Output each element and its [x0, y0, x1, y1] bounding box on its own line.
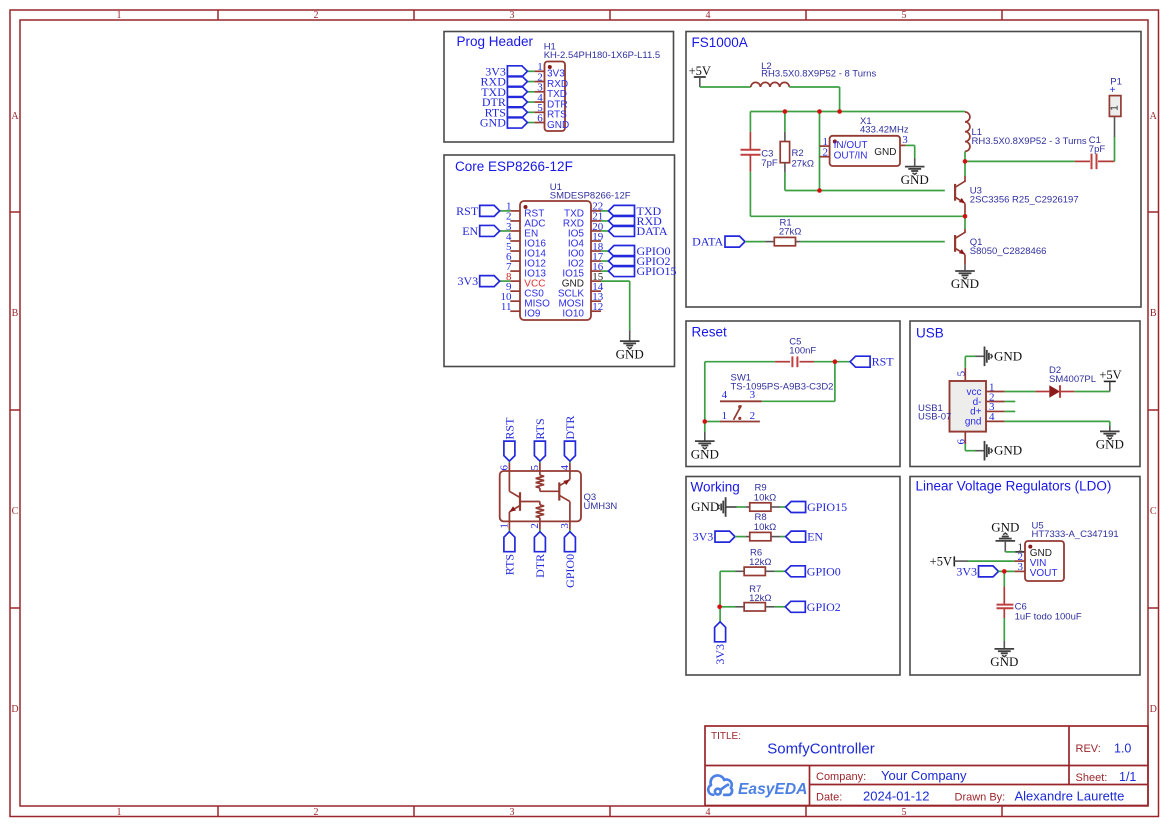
- svg-text:EN: EN: [807, 530, 823, 544]
- svg-text:TITLE:: TITLE:: [711, 731, 741, 742]
- svg-text:A: A: [1150, 111, 1158, 122]
- svg-text:1/1: 1/1: [1119, 770, 1136, 784]
- svg-text:C: C: [1150, 506, 1157, 517]
- svg-text:EN: EN: [462, 224, 478, 238]
- svg-text:VOUT: VOUT: [1030, 568, 1058, 579]
- svg-text:GPIO0: GPIO0: [807, 564, 841, 578]
- svg-text:RH3.5X0.8X9P52 - 3 Turns: RH3.5X0.8X9P52 - 3 Turns: [972, 136, 1087, 147]
- svg-text:GPIO2: GPIO2: [807, 600, 841, 614]
- svg-text:Alexandre Laurette: Alexandre Laurette: [1015, 789, 1125, 804]
- svg-text:SomfyController: SomfyController: [767, 741, 875, 758]
- svg-text:1: 1: [117, 10, 122, 21]
- svg-text:5: 5: [902, 10, 907, 21]
- svg-text:Prog Header: Prog Header: [457, 34, 534, 49]
- svg-text:A: A: [11, 111, 19, 122]
- svg-text:TS-1095PS-A9B3-C3D2: TS-1095PS-A9B3-C3D2: [731, 381, 834, 392]
- svg-text:6: 6: [955, 439, 967, 445]
- svg-text:FS1000A: FS1000A: [692, 35, 748, 50]
- svg-text:GND: GND: [991, 519, 1019, 534]
- svg-text:SM4007PL: SM4007PL: [1049, 374, 1096, 385]
- svg-text:5: 5: [902, 807, 907, 818]
- svg-text:4: 4: [706, 10, 711, 21]
- svg-text:1: 1: [499, 523, 511, 529]
- svg-text:12: 12: [592, 301, 603, 313]
- svg-text:27kΩ: 27kΩ: [792, 158, 814, 169]
- svg-text:3V3: 3V3: [458, 274, 479, 288]
- svg-text:11: 11: [501, 301, 512, 313]
- svg-text:3: 3: [559, 523, 571, 529]
- svg-text:3V3: 3V3: [693, 530, 714, 544]
- svg-text:D: D: [11, 704, 18, 715]
- svg-text:Linear Voltage Regulators (LDO: Linear Voltage Regulators (LDO): [916, 479, 1112, 494]
- svg-text:EasyEDA: EasyEDA: [738, 781, 807, 798]
- svg-text:4: 4: [989, 411, 995, 423]
- svg-text:100nF: 100nF: [789, 346, 816, 357]
- svg-text:2024-01-12: 2024-01-12: [863, 789, 930, 804]
- svg-text:SMDESP8266-12F: SMDESP8266-12F: [550, 190, 631, 201]
- svg-text:3: 3: [902, 134, 908, 146]
- svg-text:4: 4: [706, 807, 711, 818]
- svg-text:Reset: Reset: [692, 325, 728, 340]
- svg-text:GND: GND: [616, 346, 644, 361]
- svg-text:GND: GND: [547, 120, 569, 131]
- svg-text:C: C: [12, 506, 19, 517]
- svg-text:2: 2: [314, 10, 319, 21]
- svg-text:B: B: [12, 308, 19, 319]
- svg-text:10kΩ: 10kΩ: [754, 522, 776, 533]
- svg-text:4: 4: [559, 465, 571, 471]
- svg-text:Working: Working: [691, 480, 740, 495]
- svg-text:GND: GND: [951, 276, 979, 291]
- svg-text:10kΩ: 10kΩ: [754, 492, 776, 503]
- svg-text:B: B: [1150, 308, 1157, 319]
- svg-text:12kΩ: 12kΩ: [749, 557, 771, 568]
- svg-text:RH3.5X0.8X9P52 - 8 Turns: RH3.5X0.8X9P52 - 8 Turns: [761, 68, 876, 79]
- svg-text:1: 1: [1110, 105, 1121, 111]
- svg-text:2: 2: [314, 807, 319, 818]
- svg-text:RST: RST: [872, 355, 895, 369]
- svg-text:3V3: 3V3: [956, 565, 977, 579]
- svg-text:1: 1: [117, 807, 122, 818]
- svg-text:GPIO15: GPIO15: [807, 500, 847, 514]
- svg-text:OUT/IN: OUT/IN: [834, 151, 868, 162]
- svg-text:gnd: gnd: [965, 417, 982, 428]
- svg-text:5: 5: [529, 465, 541, 471]
- svg-text:DATA: DATA: [692, 235, 723, 249]
- svg-text:GND: GND: [1096, 437, 1124, 452]
- svg-text:KH-2.54PH180-1X6P-L11.5: KH-2.54PH180-1X6P-L11.5: [544, 50, 661, 61]
- svg-text:+5V: +5V: [930, 554, 952, 568]
- svg-text:2SC3356 R25_C2926197: 2SC3356 R25_C2926197: [970, 195, 1079, 206]
- svg-text:RST: RST: [502, 417, 516, 440]
- svg-text:IO10: IO10: [562, 309, 584, 320]
- svg-text:GPIO15: GPIO15: [637, 264, 677, 278]
- svg-text:GND: GND: [874, 147, 896, 158]
- svg-text:D: D: [1150, 704, 1157, 715]
- svg-text:4: 4: [722, 389, 728, 401]
- svg-text:6: 6: [499, 465, 511, 471]
- svg-text:+5V: +5V: [1099, 368, 1121, 382]
- svg-text:USB-07: USB-07: [918, 412, 951, 423]
- svg-text:7pF: 7pF: [1089, 144, 1106, 155]
- svg-text:2: 2: [750, 410, 756, 422]
- svg-text:GND: GND: [691, 499, 719, 514]
- svg-text:Date:: Date:: [816, 792, 842, 804]
- svg-text:DATA: DATA: [637, 224, 668, 238]
- svg-text:3: 3: [510, 10, 515, 21]
- svg-text:GPIO0: GPIO0: [563, 554, 577, 588]
- svg-text:DTR: DTR: [533, 554, 547, 578]
- svg-text:Your Company: Your Company: [881, 768, 967, 783]
- svg-text:12kΩ: 12kΩ: [749, 593, 771, 604]
- svg-text:2: 2: [529, 523, 541, 529]
- svg-text:1: 1: [722, 410, 728, 422]
- svg-text:DTR: DTR: [563, 416, 577, 440]
- svg-text:2: 2: [823, 147, 829, 159]
- svg-text:5: 5: [955, 370, 967, 376]
- svg-text:6: 6: [537, 112, 543, 124]
- svg-text:27kΩ: 27kΩ: [779, 227, 801, 238]
- svg-text:+5V: +5V: [689, 64, 711, 78]
- svg-text:USB: USB: [916, 326, 944, 341]
- svg-text:3V3: 3V3: [713, 644, 727, 665]
- svg-text:RTS: RTS: [533, 418, 547, 439]
- svg-text:UMH3N: UMH3N: [584, 501, 618, 512]
- svg-text:Drawn By:: Drawn By:: [955, 792, 1006, 804]
- svg-text:IO9: IO9: [524, 309, 541, 320]
- svg-text:S8050_C2828466: S8050_C2828466: [970, 246, 1047, 257]
- svg-text:RTS: RTS: [502, 554, 516, 575]
- svg-text:REV:: REV:: [1076, 743, 1101, 755]
- svg-text:P1: P1: [1110, 77, 1122, 88]
- svg-text:Sheet:: Sheet:: [1076, 772, 1108, 784]
- svg-text:HT7333-A_C347191: HT7333-A_C347191: [1032, 529, 1119, 540]
- svg-text:GND: GND: [691, 446, 719, 461]
- svg-text:Core ESP8266-12F: Core ESP8266-12F: [455, 159, 573, 174]
- svg-text:1uF todo 100uF: 1uF todo 100uF: [1015, 611, 1082, 622]
- svg-text:7pF: 7pF: [761, 158, 778, 169]
- svg-text:RST: RST: [456, 204, 479, 218]
- svg-text:1.0: 1.0: [1114, 742, 1131, 756]
- svg-text:GND: GND: [901, 172, 929, 187]
- svg-text:GND: GND: [990, 654, 1018, 669]
- svg-text:GND: GND: [994, 348, 1022, 363]
- svg-text:Company:: Company:: [816, 771, 866, 783]
- svg-text:3: 3: [510, 807, 515, 818]
- svg-text:GND: GND: [994, 443, 1022, 458]
- svg-text:GND: GND: [480, 116, 506, 130]
